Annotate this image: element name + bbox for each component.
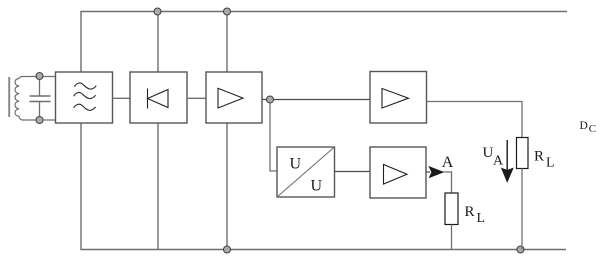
capacitor C1 bottom lead (39, 102, 41, 121)
wire arrow to resistor RL left (443, 172, 452, 193)
resistor RL left (445, 193, 458, 225)
svg-text:U: U (483, 145, 494, 161)
wire tank top (22, 76, 56, 78)
svg-text:L: L (477, 211, 486, 226)
filter block (56, 72, 113, 123)
node amplifier1 output junction dot (267, 96, 274, 103)
wire amplifier1 output (262, 99, 370, 101)
wire amplifier1 top lead (226, 12, 228, 73)
arrow UA voltage (501, 140, 514, 183)
node tank top junction dot (36, 73, 43, 80)
node junction dot top rail at diode (154, 8, 161, 15)
node tank bottom junction dot (36, 117, 43, 124)
wire amplifier3 output stub (426, 171, 430, 173)
svg-text:A: A (493, 154, 504, 169)
wire filter to demodulator (113, 97, 131, 99)
svg-text:A: A (442, 154, 454, 171)
capacitor C1 top lead (39, 77, 41, 97)
wire demodulator to amplifier1 (187, 97, 206, 99)
wire diode block bottom lead (157, 123, 159, 250)
amplifier3 block (370, 147, 426, 198)
resistor RL right (517, 138, 529, 169)
wire resistor RL right bottom lead (521, 169, 523, 250)
demodulator block (130, 72, 187, 123)
svg-text:D: D (580, 120, 588, 132)
amplifier2 block (370, 72, 427, 124)
capacitor C1 plates (30, 96, 51, 102)
wire branch down to converter (270, 103, 277, 171)
amplifier1 triangle symbol (218, 88, 243, 108)
wire amplifier2 output to right load (427, 102, 523, 138)
inductor coil (15, 77, 23, 120)
converter block U/U (277, 147, 335, 197)
filter wavy symbol (74, 83, 97, 110)
wire resistor RL left bottom lead (451, 225, 453, 250)
svg-text:L: L (546, 156, 555, 171)
amplifier1 block (206, 72, 262, 123)
amplifier3 triangle symbol (384, 165, 408, 185)
wire tank bottom (22, 119, 56, 121)
node junction dot top rail at amplifier1 (224, 8, 231, 15)
wire diode block top lead (157, 12, 159, 73)
svg-text:C: C (589, 123, 596, 135)
converter diagonal (277, 147, 335, 197)
node junction dot bottom rail at right load (517, 246, 524, 253)
svg-text:U: U (290, 156, 302, 173)
svg-text:R: R (465, 204, 475, 220)
wire amplifier1 bottom lead (226, 123, 228, 250)
svg-text:R: R (534, 149, 544, 165)
arrow output A (428, 166, 444, 178)
svg-text:U: U (311, 178, 323, 195)
amplifier2 triangle symbol (382, 89, 409, 109)
antenna rod L1 (8, 77, 10, 117)
diode symbol V1 (148, 89, 169, 109)
wire bottom return rail (81, 123, 566, 250)
wire top supply rail (81, 12, 567, 73)
wire converter to amplifier3 (335, 171, 371, 173)
node junction dot bottom rail at amplifier1 (224, 246, 231, 253)
